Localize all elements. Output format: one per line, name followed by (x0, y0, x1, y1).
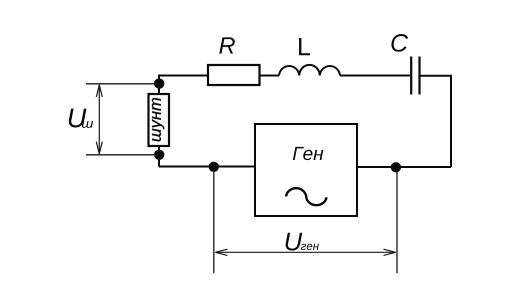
wire top-left corner to resistor (159, 76, 208, 95)
wire right side bottom to generator (357, 166, 451, 168)
wire capacitor to right corner, down right side (421, 76, 452, 167)
label C (391, 34, 408, 52)
junction dot bottom of shunt (154, 150, 164, 160)
label U_gen (286, 233, 319, 251)
extension line left for U_gen (213, 170, 215, 273)
generator sine symbol (286, 188, 327, 205)
dimension arrow U_sh vertical (96, 85, 102, 154)
leader line bottom for U_sh (86, 154, 159, 156)
wire bottom-left corner up to shunt (158, 146, 160, 167)
capacitor C (411, 57, 419, 95)
dimension arrow U_gen horizontal (215, 249, 395, 255)
label L (299, 38, 310, 55)
junction dot bottom wire right (391, 162, 401, 172)
junction dot bottom wire left (209, 162, 219, 172)
shunt resistor (149, 94, 170, 146)
resistor R (208, 65, 260, 85)
label U_sh (69, 109, 93, 128)
label Gen (293, 147, 323, 160)
wire inductor to capacitor (340, 75, 410, 77)
junction dot top of shunt (154, 78, 164, 88)
wire generator to bottom-left corner (159, 166, 255, 168)
generator box Gen (255, 124, 357, 216)
leader line top for U_sh (86, 83, 159, 85)
extension line right for U_gen (396, 171, 398, 273)
label R (219, 37, 235, 53)
inductor L (279, 65, 340, 76)
wire resistor to inductor (260, 75, 280, 77)
label shunt (rotated) (152, 98, 164, 141)
